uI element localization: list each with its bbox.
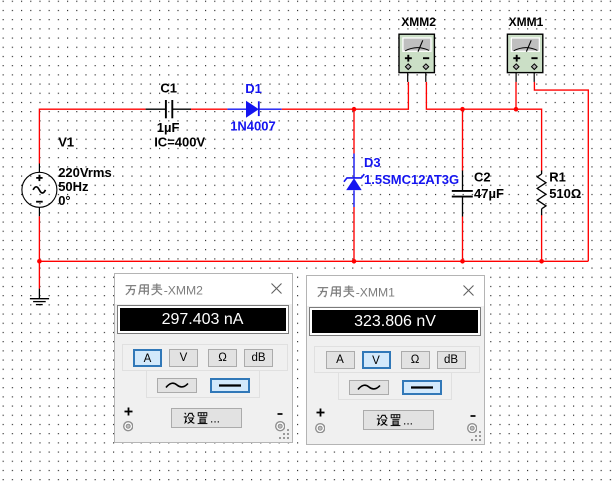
XMM2 minus terminal	[275, 421, 285, 431]
wire XMM1 plus to node	[515, 82, 517, 109]
wire R1 bottom to bottom net	[541, 215, 543, 261]
multimeter icon XMM1	[507, 34, 542, 82]
XMM1 button A	[326, 351, 355, 369]
XMM2 button V	[169, 349, 198, 367]
svg-text:C2: C2	[474, 169, 491, 184]
svg-text:50Hz: 50Hz	[58, 179, 89, 194]
XMM1 DC button selected	[402, 380, 442, 395]
svg-text:...: ...	[210, 412, 220, 426]
XMM1 display 323.806 nV	[309, 307, 481, 336]
XMM1 button dB	[437, 351, 466, 369]
XMM1 mode group	[314, 346, 480, 373]
label D1	[245, 81, 262, 96]
wire D1 to XMM2 plus	[282, 82, 409, 109]
XMM2 plus label	[124, 407, 133, 416]
svg-text:XMM1: XMM1	[509, 15, 544, 29]
XMM1 resize grip	[469, 429, 483, 443]
XMM1 AC button	[349, 380, 389, 395]
label C2	[474, 169, 491, 184]
XMM1 button ohm	[401, 351, 430, 369]
svg-text:-XMM2: -XMM2	[163, 283, 202, 297]
multimeter icon XMM2	[399, 34, 434, 82]
junction D3 bottom	[352, 259, 357, 264]
XMM2 plus terminal	[123, 421, 133, 431]
XMM1 settings button	[363, 410, 434, 430]
svg-text:1µF: 1µF	[157, 120, 180, 135]
svg-text:IC=400V: IC=400V	[154, 134, 205, 149]
value label 510ohm	[549, 186, 581, 201]
label R1	[549, 169, 566, 184]
ground	[30, 289, 49, 305]
wire XMM2 minus to R1 top	[426, 82, 541, 171]
junction node C2 top	[460, 107, 465, 112]
value label 1N4007	[230, 119, 276, 134]
svg-text:1.5SMC12AT3G: 1.5SMC12AT3G	[364, 172, 459, 187]
svg-text:R1: R1	[549, 169, 566, 184]
resistor R1	[537, 171, 546, 216]
label XMM1	[509, 15, 544, 29]
value label 1.5SMC12AT3G	[364, 172, 459, 187]
junction C2 bottom	[460, 259, 465, 264]
svg-text:1N4007: 1N4007	[230, 119, 276, 134]
XMM1 button V selected	[362, 351, 391, 369]
value label 47uF	[474, 186, 504, 201]
XMM2 DC button selected	[210, 378, 250, 393]
svg-text:-XMM1: -XMM1	[356, 285, 395, 299]
zener diode D3	[344, 154, 364, 208]
label C1	[160, 81, 177, 96]
svg-text:C1: C1	[160, 81, 177, 96]
svg-text:0°: 0°	[58, 193, 70, 208]
XMM2 close button	[270, 282, 283, 295]
XMM2 minus label	[277, 412, 283, 416]
junction node XMM1 plus	[514, 107, 519, 112]
label XMM2	[401, 15, 436, 29]
capacitor C2	[452, 171, 473, 217]
XMM2 button dB	[244, 349, 273, 367]
value label 1uF IC=400V	[154, 120, 205, 149]
svg-text:...: ...	[403, 413, 413, 427]
wire V1 bottom	[38, 216, 40, 261]
junction ground node	[37, 259, 42, 264]
XMM2 button ohm	[208, 349, 237, 367]
XMM1 plus terminal	[315, 423, 325, 433]
capacitor C1	[146, 100, 191, 118]
label D3	[364, 155, 381, 170]
XMM1 minus terminal	[467, 423, 477, 433]
wire node to D3	[353, 109, 355, 153]
XMM1 plus label	[316, 408, 325, 417]
XMM1 minus label	[470, 414, 476, 418]
XMM1 close button	[462, 284, 475, 297]
svg-text:V1: V1	[58, 134, 74, 149]
wire D3 to bottom net	[353, 207, 355, 261]
svg-text:220Vrms: 220Vrms	[58, 165, 111, 180]
wire C1 to D1	[191, 108, 227, 110]
XMM2 mode group	[122, 344, 288, 371]
wire bottom net	[39, 260, 588, 262]
junction R1 bottom	[539, 259, 544, 264]
svg-text:47µF: 47µF	[474, 186, 504, 201]
XMM2 display 297.403 nA	[117, 305, 289, 334]
value label 220Vrms 50Hz 0deg	[58, 165, 111, 208]
junction node D3 top	[352, 107, 357, 112]
svg-text:D1: D1	[245, 81, 262, 96]
wire bottom net to ground	[38, 261, 40, 288]
wire V1 top to C1	[39, 109, 145, 163]
wire node to C2	[462, 109, 464, 171]
multimeter panel XMM1	[306, 275, 485, 445]
wire XMM1 minus to bottom net	[534, 82, 588, 261]
AC source V1	[22, 164, 57, 217]
XMM2 button A selected	[133, 349, 162, 367]
svg-text:D3: D3	[364, 155, 381, 170]
svg-text:XMM2: XMM2	[401, 15, 436, 29]
XMM2 panel titlebar	[115, 274, 292, 304]
label V1	[58, 134, 74, 149]
wire C2 to bottom net	[462, 217, 464, 262]
XMM2 resize grip	[277, 427, 291, 441]
XMM2 AC button	[157, 378, 197, 393]
multimeter panel XMM2	[114, 273, 293, 443]
XMM1 panel titlebar	[307, 276, 484, 306]
diode D1	[227, 101, 281, 118]
XMM2 settings button	[171, 408, 242, 428]
svg-text:510Ω: 510Ω	[549, 186, 581, 201]
